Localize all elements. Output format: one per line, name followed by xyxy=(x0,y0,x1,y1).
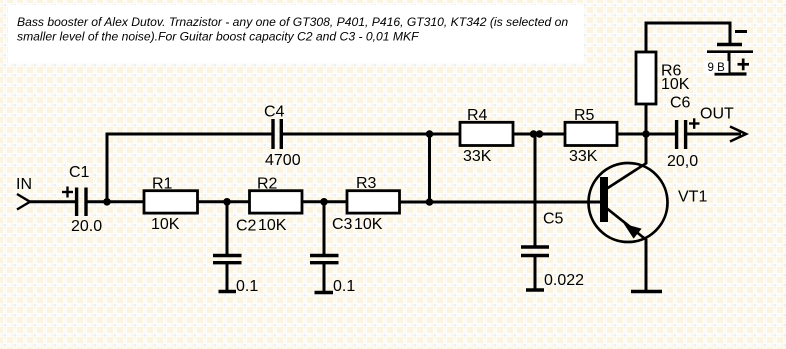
capacitor C4 xyxy=(264,104,301,170)
svg-text:9 В: 9 В xyxy=(708,62,726,74)
resistor R6 xyxy=(636,52,690,104)
svg-text:smaller level of the noise).Fo: smaller level of the noise).For Guitar b… xyxy=(17,30,419,44)
ground (C2) xyxy=(219,290,237,293)
resistor R3 xyxy=(347,175,400,233)
svg-text:C3: C3 xyxy=(332,216,353,233)
node B (top line / vertical) xyxy=(426,130,434,138)
svg-text:20,0: 20,0 xyxy=(667,153,698,170)
node F (R2/R3/C3) xyxy=(320,198,328,206)
wire R4 to R5 xyxy=(513,133,565,136)
ground (VT1 emitter) xyxy=(631,290,662,293)
node E (R1/R2/C2) xyxy=(223,198,231,206)
wire C3 to ground xyxy=(323,263,326,293)
resistor R5 xyxy=(565,107,617,165)
svg-text:C5: C5 xyxy=(543,211,564,228)
svg-text:0.1: 0.1 xyxy=(236,278,258,295)
wire C1 to R1 xyxy=(87,200,144,203)
svg-text:C6: C6 xyxy=(670,95,691,112)
battery GB1 9V xyxy=(705,32,754,75)
transistor VT1 xyxy=(589,163,708,242)
wire R5 to C6 xyxy=(617,133,676,136)
wire collector to node D xyxy=(645,134,648,164)
svg-text:10K: 10K xyxy=(354,216,383,233)
svg-text:33K: 33K xyxy=(463,148,492,165)
wire C2 vertical xyxy=(226,202,229,256)
wire C5 vertical from node C crossing base line xyxy=(534,134,537,247)
wire R3 to transistor base xyxy=(400,201,602,204)
note text block xyxy=(8,5,584,63)
resistor R4 xyxy=(460,107,513,165)
node A (C1 / top branch) xyxy=(103,198,111,206)
wire R2 to R3 xyxy=(302,200,347,203)
capacitor C5 xyxy=(521,211,584,290)
svg-text:0.022: 0.022 xyxy=(544,272,584,289)
capacitor C1 xyxy=(62,164,102,235)
resistor R1 xyxy=(144,176,198,234)
wire top line left segment to C4 xyxy=(106,133,272,136)
svg-text:33K: 33K xyxy=(569,148,598,165)
ground (C5) xyxy=(526,288,544,291)
svg-text:Bass booster of Alex Dutov. Tr: Bass booster of Alex Dutov. Trnazistor -… xyxy=(17,15,568,29)
svg-text:20.0: 20.0 xyxy=(71,218,102,235)
node C (double junction dots R4/R5/C5) xyxy=(530,130,538,138)
wire C5 to ground xyxy=(534,256,537,291)
port IN xyxy=(16,176,32,210)
wire R1 to R2 xyxy=(198,200,250,203)
resistor R2 xyxy=(250,176,303,235)
wire C2 to ground xyxy=(226,263,229,292)
wire IN to C1 xyxy=(29,200,75,203)
port OUT xyxy=(687,106,746,142)
svg-text:OUT: OUT xyxy=(700,106,734,123)
wire vertical node B to base line xyxy=(428,134,431,202)
wire R6 top to battery xyxy=(646,23,730,52)
svg-text:C2: C2 xyxy=(236,218,257,235)
wire emitter to ground xyxy=(645,239,648,292)
node G (base line / vertical) xyxy=(426,198,434,206)
svg-text:VT1: VT1 xyxy=(678,189,707,206)
svg-text:10K: 10K xyxy=(661,76,690,93)
ground (C3) xyxy=(315,291,334,294)
capacitor C2 xyxy=(213,218,258,296)
svg-text:IN: IN xyxy=(16,176,32,193)
wire R6 bottom to node D xyxy=(645,104,648,134)
wire C4 to node B xyxy=(283,133,460,136)
svg-text:10K: 10K xyxy=(258,217,287,234)
svg-text:4700: 4700 xyxy=(265,152,301,169)
capacitor C3 xyxy=(310,216,355,295)
wire C3 vertical xyxy=(323,202,326,256)
node D (R5/R6/collector/C6) xyxy=(642,130,650,138)
svg-text:10K: 10K xyxy=(151,216,180,233)
capacitor C6 xyxy=(667,95,700,171)
svg-text:0.1: 0.1 xyxy=(333,278,355,295)
svg-text:C1: C1 xyxy=(69,164,90,181)
svg-text:C4: C4 xyxy=(264,104,285,121)
wire vertical node A to top line xyxy=(106,134,109,202)
